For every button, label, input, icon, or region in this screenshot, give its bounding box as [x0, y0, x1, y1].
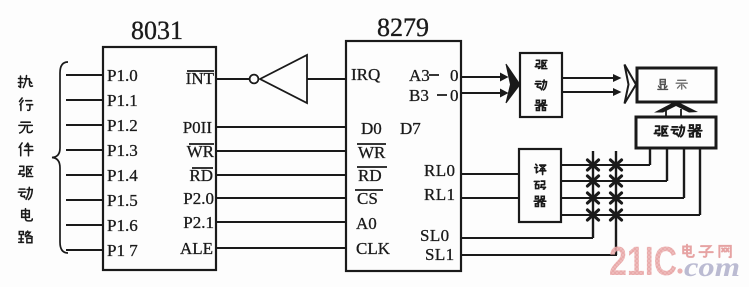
svg-text:com: com [684, 252, 740, 282]
svg-text:SL1: SL1 [425, 245, 455, 264]
svg-text:P1.0: P1.0 [107, 66, 138, 85]
svg-text:0: 0 [450, 86, 459, 105]
svg-text:A0: A0 [356, 214, 377, 233]
svg-text:D0: D0 [361, 119, 382, 138]
svg-text:B3: B3 [409, 86, 429, 105]
svg-text:RL1: RL1 [424, 185, 455, 204]
svg-text:P1.5: P1.5 [107, 191, 138, 210]
svg-text:CS: CS [357, 189, 378, 208]
svg-text:A3: A3 [409, 66, 430, 85]
svg-text:P1.2: P1.2 [107, 116, 138, 135]
svg-text:CLK: CLK [356, 239, 391, 258]
svg-text:P2.0: P2.0 [183, 189, 214, 208]
svg-text:P1.4: P1.4 [107, 166, 138, 185]
svg-text:P1.1: P1.1 [107, 91, 138, 110]
svg-text:WR: WR [358, 143, 386, 162]
svg-text:P1.3: P1.3 [107, 141, 138, 160]
svg-text:P2.1: P2.1 [183, 213, 214, 232]
svg-text:ALE: ALE [180, 239, 213, 258]
svg-text:8279: 8279 [377, 13, 429, 42]
svg-text:P1 7: P1 7 [107, 241, 138, 260]
svg-text:D7: D7 [400, 119, 421, 138]
svg-text:IRQ: IRQ [351, 65, 380, 84]
svg-text:RD: RD [358, 166, 382, 185]
svg-text:P1.6: P1.6 [107, 216, 138, 235]
svg-text:0: 0 [450, 66, 459, 85]
svg-text:21IC: 21IC [609, 238, 677, 284]
svg-text:SL0: SL0 [420, 226, 450, 245]
svg-text:P0II: P0II [183, 118, 213, 137]
svg-text:RL0: RL0 [424, 161, 455, 180]
svg-text:8031: 8031 [131, 16, 183, 45]
